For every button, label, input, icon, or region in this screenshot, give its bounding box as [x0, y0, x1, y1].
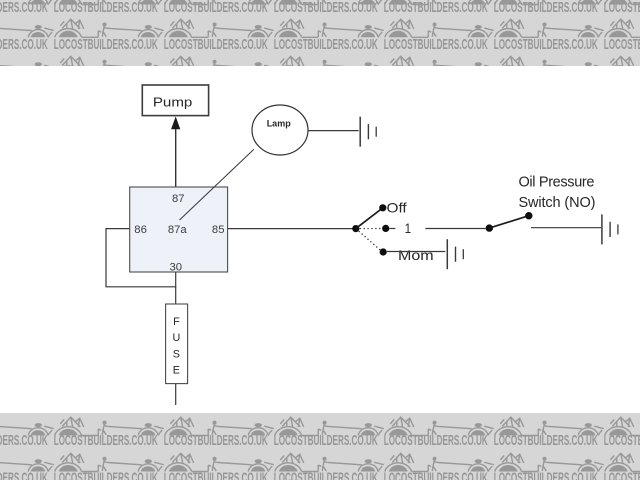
wire position 1 to oil pressure switch: [425, 228, 485, 230]
switch position 1 contact: [382, 225, 389, 232]
switch Mom contact: [380, 248, 387, 255]
wire lamp to ground: [308, 130, 359, 132]
svg-text:86: 86: [134, 224, 147, 236]
wire relay 87a to lamp (diagonal): [180, 149, 254, 220]
svg-text:30: 30: [170, 262, 183, 274]
pump box (load "Pump"): [142, 85, 208, 116]
svg-text:Off: Off: [387, 200, 407, 215]
fuse F1 box: [166, 304, 188, 384]
svg-text:Pump: Pump: [153, 94, 193, 109]
oil pressure switch blade (NO, open): [489, 216, 529, 228]
svg-text:87a: 87a: [168, 224, 188, 236]
svg-text:85: 85: [212, 224, 225, 236]
svg-text:87: 87: [172, 193, 185, 205]
ground (oil pressure switch): [602, 214, 618, 244]
svg-text:F: F: [173, 316, 180, 328]
svg-text:U: U: [172, 332, 180, 344]
svg-text:1: 1: [405, 221, 412, 236]
svg-text:S: S: [173, 348, 180, 360]
oil pressure switch common node: [486, 224, 493, 231]
switch SW1 common node: [352, 225, 359, 232]
svg-text:Mom: Mom: [398, 248, 434, 263]
ground (lamp): [360, 117, 376, 147]
switch Off contact: [379, 204, 386, 211]
switch blade to Off position: [356, 208, 383, 229]
relay K1 box: [130, 187, 228, 272]
wire oil pressure switch to ground: [531, 227, 601, 229]
wire relay 86 loop to pin 30 net: [106, 229, 176, 287]
ground (Mom): [447, 239, 463, 269]
label Oil Pressure Switch (NO): [519, 175, 596, 212]
svg-text:Oil Pressure: Oil Pressure: [519, 175, 595, 191]
oil pressure switch moving contact: [525, 212, 532, 219]
svg-text:Switch (NO): Switch (NO): [519, 195, 596, 211]
wire relay pin 87 to pump with arrowhead: [171, 117, 180, 187]
wire relay 85 to switch common: [228, 228, 353, 230]
svg-text:E: E: [173, 364, 180, 376]
dotted throw to position 1: [356, 228, 382, 230]
lamp L1: [252, 105, 308, 155]
wire fuse to supply: [175, 384, 177, 405]
wire relay 30 to fuse: [175, 272, 177, 304]
wire stub from contact 1: [389, 228, 395, 230]
wire Mom contact to ground: [387, 251, 446, 253]
svg-text:Lamp: Lamp: [267, 118, 292, 128]
dotted throw to Mom position: [356, 229, 381, 251]
